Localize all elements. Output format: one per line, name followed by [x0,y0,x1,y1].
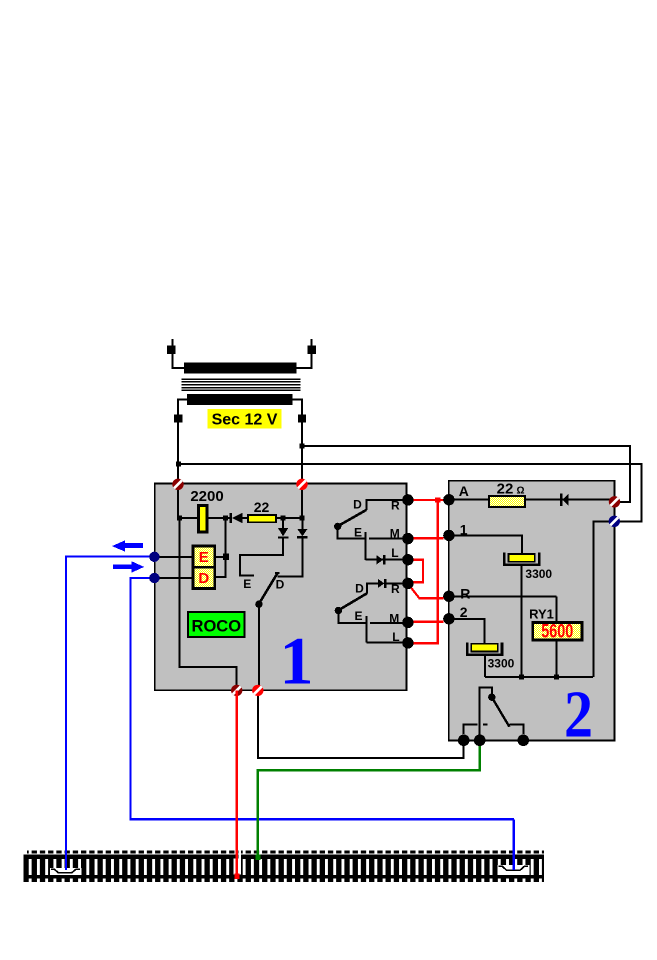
svg-text:R: R [391,582,400,596]
node junction [177,516,182,521]
module box 2 [449,481,615,741]
switch S1 lever [275,572,280,574]
wire M [370,622,408,624]
wire E contact path [240,539,283,576]
switch S2 lever D [338,510,367,526]
transformer T1 primary winding [184,362,297,373]
svg-text:1: 1 [280,623,314,699]
box2: label A wire [449,499,489,501]
relay switch K1 [480,688,492,741]
terminal R2 [402,578,413,589]
resistor 22 [248,515,276,522]
wire switch common down [258,604,260,689]
track rail 2 [23,875,544,879]
terminal M1 [402,533,413,544]
terminal blue upper [149,552,159,562]
wire red feeder to track [235,690,237,876]
capacitor C1 3300 [509,554,535,562]
wire green relay to track [258,740,480,845]
svg-text:2: 2 [460,604,468,620]
node junction right [299,443,304,448]
svg-text:1: 1 [460,522,468,538]
terminal A [443,494,454,505]
junction marker red bottom [252,685,263,696]
svg-text:2: 2 [564,678,593,752]
terminal R1 [402,494,413,505]
junction marker dark red top-left [172,479,183,490]
terminal K1 c [518,735,530,747]
terminal blue lower [149,573,159,583]
wire red R2 diagonal to R [408,583,444,598]
diode D3 down [301,518,303,529]
node junction [281,516,286,521]
svg-text:E: E [354,609,362,623]
svg-text:D: D [355,582,364,596]
arrow blue left [112,540,143,551]
wire red bus vertical [437,500,439,643]
wire L [366,642,407,644]
wire red M1 to 1 [408,537,444,539]
svg-text:5600: 5600 [541,621,573,642]
resistor 22 ohm [489,496,525,507]
node junction square [223,554,229,560]
junction marker blue box2 [609,516,620,527]
wire blue feeder right [513,819,515,870]
wire after resistor [276,517,303,519]
wire E box right to junction [215,556,226,558]
terminal 1 [443,530,454,541]
svg-text:M: M [389,611,399,625]
svg-text:3300: 3300 [488,657,515,671]
box1: wire from top-left junction down [177,484,179,518]
contact E bar [364,532,366,560]
module box 1 [155,484,407,691]
track feeder clip right [498,865,530,875]
wire S3 common [338,611,365,623]
junction marker red top-right [296,479,307,490]
svg-text:22: 22 [497,480,514,497]
svg-text:ROCO: ROCO [192,618,242,636]
terminal R [443,591,454,602]
wire M [369,538,408,540]
wire red R1 to A [408,499,449,501]
terminal K1 b [474,735,486,747]
node junction left [176,462,181,467]
wire E box left leads [155,557,193,578]
svg-text:D: D [198,570,209,587]
label ROCO [188,612,244,637]
node junction [223,516,228,521]
svg-text:RY1: RY1 [529,607,554,622]
switch S3 lever D [338,593,367,610]
svg-text:L: L [392,630,399,644]
wire red L2 to bus [408,642,439,644]
node red junction [435,497,440,502]
track bed top dashes [27,850,544,853]
wire secondary right lead [292,399,302,483]
wire L with diode D4 [365,559,407,561]
svg-text:A: A [459,483,469,499]
wire from blue junction into box2 [594,521,615,677]
node 2 wire [449,619,485,644]
wire black box1 to box2 bottom [258,690,464,758]
node 1 wire [449,535,522,554]
terminal L1 [402,554,413,565]
arrow blue right [113,561,144,573]
node junction [554,674,559,679]
wire from top-right junction down [301,484,303,518]
label Sec 12 V [208,409,282,428]
wire green feeder to track [257,770,259,858]
wire red M2 to 2 [408,621,444,623]
svg-text:R: R [391,498,400,512]
svg-text:Ω: Ω [517,485,525,496]
transformer T1 secondary winding [187,394,293,405]
svg-text:E: E [199,549,209,566]
capacitor 2200 [197,504,208,534]
selector box E/D [193,546,215,589]
box1: wire cap row [178,517,229,519]
svg-text:22: 22 [254,499,270,515]
junction marker dark red bottom [231,685,242,696]
wire secondary left lead [178,399,188,483]
svg-text:L: L [391,546,398,560]
svg-text:M: M [390,526,400,540]
terminal K1 a [458,735,470,747]
transformer core laminations [182,378,301,380]
svg-text:3300: 3300 [525,567,552,581]
track sleepers [23,859,544,875]
wire to diode D6 [525,499,614,501]
wire bottom bus [485,676,593,678]
svg-text:2200: 2200 [190,488,223,505]
capacitor C2 3300 [471,644,497,652]
terminal 2 [443,613,454,624]
wire vertical junction to D [215,520,226,577]
track bed bottom dashes [23,879,544,882]
svg-text:E: E [354,526,362,540]
diode D1 [230,513,232,523]
track feeder clip left [50,868,82,875]
svg-text:R: R [460,585,470,601]
wire blue horizontal lower [130,578,513,819]
wire red L1 to R2 bracket [408,560,423,583]
terminal M2 [402,617,413,628]
wire blue horizontal upper [66,556,155,845]
node junction [300,516,305,521]
track gap at red feeder [238,850,241,874]
transformer primary left terminal [173,339,185,368]
contact E bar [365,616,367,643]
switch group S3 (lower): wire R with diode D5 [386,582,408,584]
track rail 1 [23,855,544,859]
wire S2 common [338,526,365,538]
svg-text:D: D [276,578,285,592]
node junction [519,674,524,679]
wire mains left horizontal to box2 blue junction [178,464,641,521]
svg-text:E: E [243,577,251,591]
box1: wire left vertical to bottom [180,518,237,690]
switch group S2 (upper): wire R [366,500,407,510]
diode D2 down [282,518,284,528]
terminal L2 [402,637,413,648]
transformer primary right terminal [297,339,312,368]
svg-text:Sec 12 V: Sec 12 V [212,412,278,429]
svg-text:D: D [353,498,362,512]
node R wire [449,595,557,597]
wire mains right horizontal to box2 dark junction [302,446,630,502]
junction marker dark red box2 [609,496,620,507]
wire D contact path [278,538,303,576]
wire blue feeder left [65,556,67,870]
